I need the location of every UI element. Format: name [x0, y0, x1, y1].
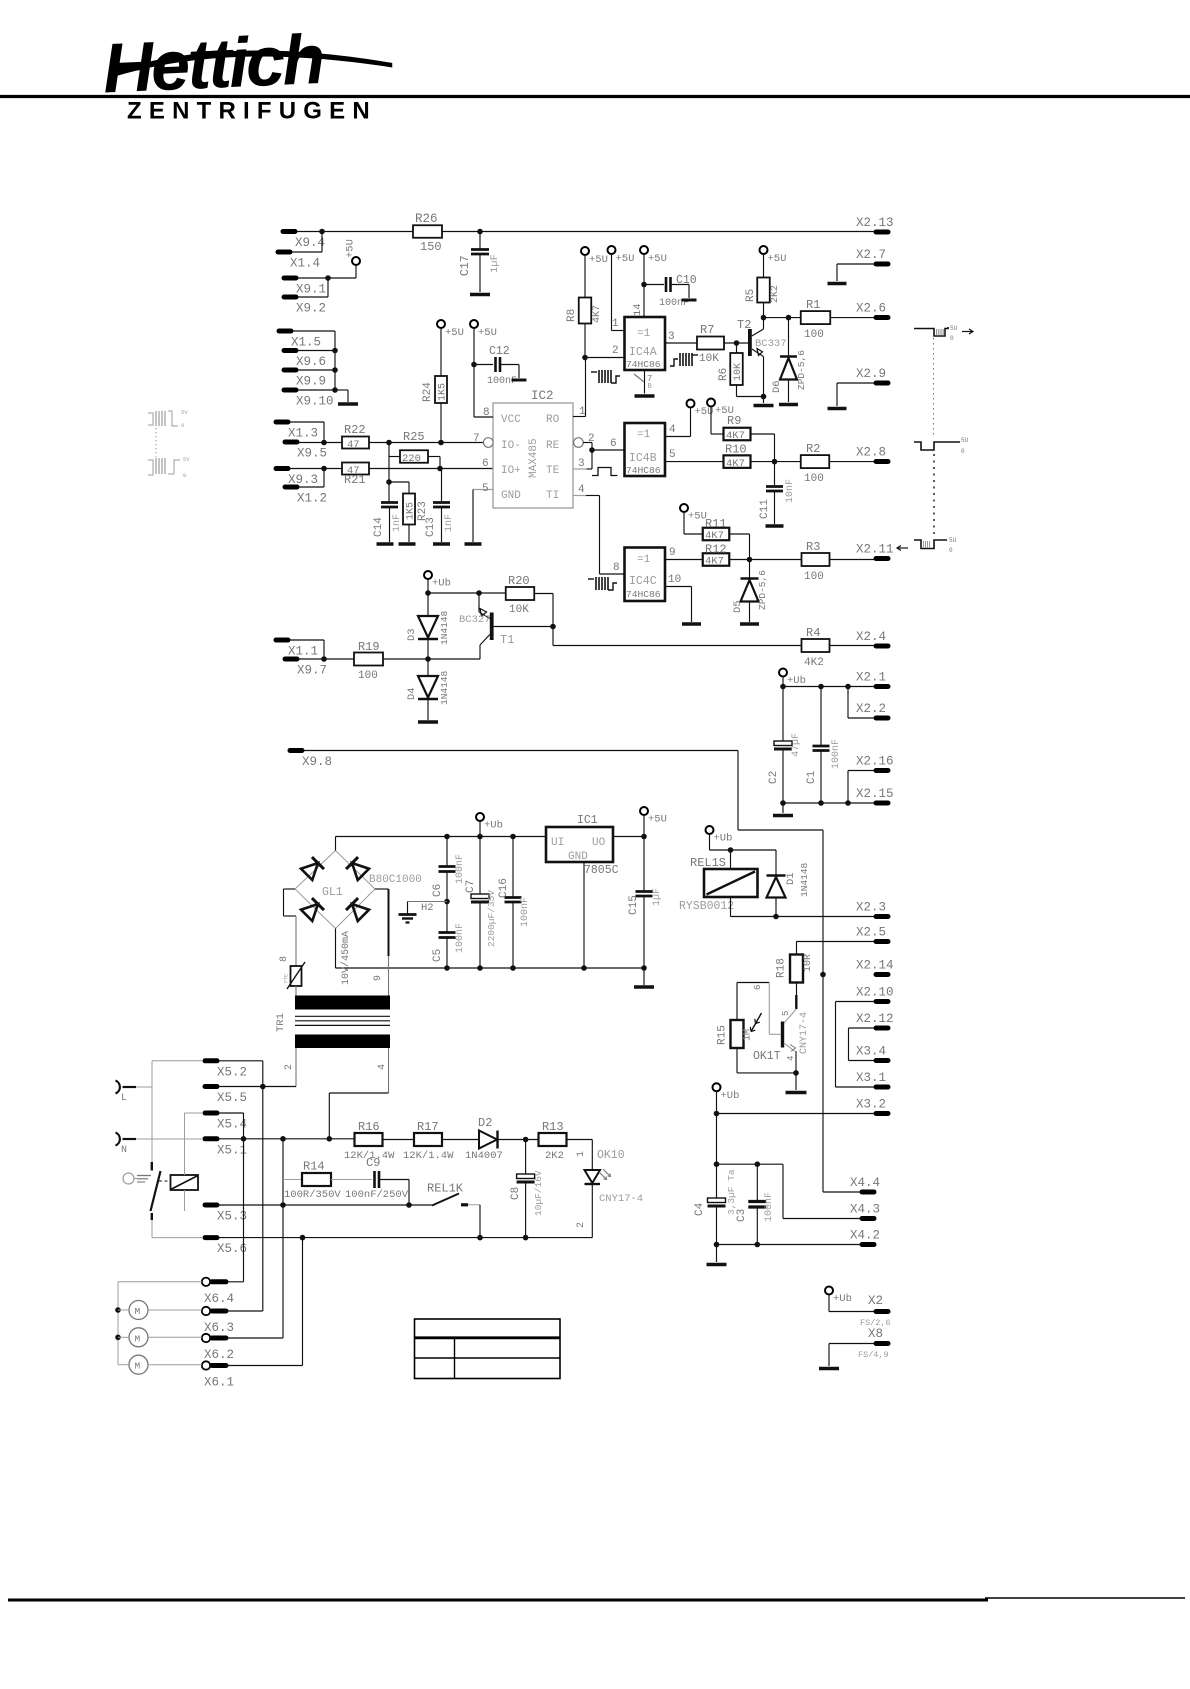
svg-text:1: 1 [576, 1151, 587, 1157]
svg-text:C16: C16 [498, 878, 510, 898]
svg-text:100nF: 100nF [764, 1192, 775, 1222]
wire to X4.3 [782, 1164, 784, 1218]
relay REL1S coil body [704, 869, 758, 897]
svg-text:T1: T1 [500, 633, 514, 647]
bus L lower [151, 1220, 153, 1238]
relay coil (door lock) [171, 1175, 199, 1190]
wire C3 row [717, 1163, 784, 1165]
door switch contact [151, 1162, 153, 1171]
svg-text:B80C1000: B80C1000 [369, 874, 422, 886]
connector pin X2.10 [876, 999, 888, 1004]
svg-text:R10: R10 [725, 443, 747, 457]
svg-text:C1: C1 [806, 770, 818, 784]
svg-text:5: 5 [669, 449, 676, 461]
svg-text:X9.7: X9.7 [297, 664, 327, 678]
capacitor C16 [512, 837, 514, 898]
diode D1 1N4148 [775, 850, 777, 875]
connector pin X9.4 [283, 229, 295, 234]
svg-text:100: 100 [804, 571, 824, 583]
node C5/C6/H2 [444, 899, 450, 905]
svg-text:1nF: 1nF [392, 514, 403, 532]
IC4B pin5 output [665, 461, 724, 463]
wire X5.5 right [219, 1086, 263, 1088]
wire R11 to node [730, 533, 750, 535]
wire R7 to T2 base [724, 342, 748, 344]
resistor R2 [801, 455, 830, 468]
connector pin X2.2 [876, 716, 888, 721]
svg-text:X9.8: X9.8 [302, 755, 332, 769]
svg-text:X5.3: X5.3 [217, 1210, 247, 1224]
svg-text:X1.4: X1.4 [290, 257, 320, 271]
svg-text:+5U: +5U [478, 327, 497, 339]
svg-text:X9.1: X9.1 [296, 283, 326, 297]
svg-text:X1.1: X1.1 [288, 645, 318, 659]
node C12 tap [471, 362, 477, 368]
node C8 tap [523, 1137, 529, 1143]
R25 left lead [389, 456, 400, 458]
node D1 bottom [773, 914, 779, 920]
svg-text:0: 0 [949, 547, 953, 554]
svg-text:N: N [121, 1145, 127, 1156]
IC2 pin 7 bubble [484, 438, 494, 448]
svg-text:10µF/16V: 10µF/16V [533, 1170, 544, 1216]
bus X6.3 drop [262, 1087, 264, 1312]
bus L upper [151, 1061, 153, 1162]
wire +5V to X9.1 node [355, 265, 357, 278]
OK1T base link [737, 982, 769, 984]
capacitor C13 [441, 469, 443, 503]
svg-text:1M: 1M [743, 1029, 754, 1041]
svg-text:4K7: 4K7 [726, 430, 745, 442]
wire down to C4 [716, 1114, 718, 1199]
connector pin X2.9 [876, 381, 888, 386]
wire X1.2 [299, 486, 324, 488]
svg-text:D5: D5 [732, 600, 744, 613]
wire +5V to IC2 pin8 [473, 328, 475, 417]
svg-text:X2.6: X2.6 [856, 302, 886, 316]
connector pin X9.3 [276, 466, 288, 471]
connector pin X8 [876, 1341, 888, 1346]
node emitter/R20 [476, 590, 482, 596]
wire N to X5.1 [136, 1138, 203, 1140]
svg-text:R18: R18 [776, 958, 788, 978]
OK1T transistor bar [781, 1022, 784, 1048]
node C10 tap [641, 282, 647, 288]
wire R19 to D3/D4 node [383, 658, 480, 660]
connector pin X2.1 [876, 684, 888, 689]
wire X9.6 [298, 350, 335, 352]
wire X9.7 [299, 658, 324, 660]
connector pin X9.1 [284, 276, 296, 281]
node IC1 out [641, 834, 647, 840]
node C3 bottom [755, 1242, 761, 1248]
svg-text:1N4148: 1N4148 [439, 610, 450, 645]
svg-text:10: 10 [668, 574, 681, 586]
node C5 rail- [444, 965, 450, 971]
TR1 pin2 lead [295, 1048, 297, 1087]
node rail +Ub/C7 [477, 834, 483, 840]
node X9.1/X9.2 [325, 275, 331, 281]
supply +5V circle (R11) [680, 504, 688, 512]
connector pin X3.4 [876, 1058, 888, 1063]
svg-text:1K5: 1K5 [438, 383, 449, 401]
svg-text:+Ub: +Ub [833, 1293, 852, 1305]
wire X9.2 [298, 296, 328, 298]
connector pin X3.1 [876, 1085, 888, 1090]
svg-text:X1.3: X1.3 [288, 427, 318, 441]
node C15 rail- [641, 965, 647, 971]
svg-text:4K2: 4K2 [804, 657, 824, 669]
svg-text:L: L [121, 1093, 127, 1104]
connector pin X5.2 [205, 1058, 217, 1063]
OK1T phototransistor collector lead [795, 995, 797, 1009]
svg-text:ZENTRIFUGEN: ZENTRIFUGEN [127, 98, 377, 125]
capacitor C4 3.3uF Ta [708, 1198, 726, 1203]
transistor T1 BC327 [478, 593, 480, 612]
resistor R22 [342, 437, 369, 449]
svg-text:10K: 10K [509, 604, 529, 616]
connector X6.3 [202, 1307, 210, 1315]
capacitor C14 [381, 501, 398, 504]
pulse glyph at IC4A pin2 [591, 371, 597, 373]
wire X3.2 [717, 1113, 875, 1115]
bridge rectifier GL1 diamond [295, 851, 375, 929]
resistor R26 [413, 225, 442, 238]
ground D4 [418, 720, 438, 724]
svg-text:RYSB0012: RYSB0012 [679, 900, 734, 913]
wire R20 to base node [535, 593, 554, 595]
connector pin X5.6 [205, 1235, 217, 1240]
supply +Ub circle (X2) [825, 1287, 833, 1295]
capacitor C5 [446, 902, 448, 933]
IC2 pin 2 bubble [574, 438, 584, 448]
svg-text:IC1: IC1 [577, 814, 598, 827]
resistor R19 [354, 653, 383, 666]
node rail C6 [444, 834, 450, 840]
svg-text:IC4A: IC4A [629, 346, 657, 359]
svg-text:9: 9 [669, 547, 676, 559]
zener diode D5 ZPD-5,6 [749, 560, 751, 579]
svg-text:100: 100 [804, 329, 824, 341]
wire C9 to X5.3 row [379, 1179, 409, 1181]
node C17 tap [477, 229, 483, 235]
svg-text:TE: TE [546, 465, 560, 477]
connector pin X2.14 [876, 972, 888, 977]
supply +5V circle (IC2 VCC) [470, 320, 478, 328]
svg-text:=1: =1 [637, 429, 651, 441]
node R25/IO+ [437, 466, 443, 472]
connector pin X2.7 [876, 262, 888, 267]
resistor R17 12K/1.4W [414, 1133, 442, 1146]
node C4 bottom [714, 1242, 720, 1248]
dotted joint [155, 428, 157, 457]
node D6 tap [786, 315, 792, 321]
wire X2.7 to ground [837, 263, 874, 265]
capacitor C12 [474, 364, 493, 366]
coil lead [730, 850, 732, 869]
svg-text:6: 6 [610, 438, 617, 450]
supply +5V circle (IC4A pin1) [608, 246, 616, 254]
motor M3 [129, 1355, 148, 1374]
wire +Ub down [716, 1091, 718, 1113]
supply +5V circle (R5) [760, 246, 768, 254]
OK1T emitter rail [737, 1072, 797, 1074]
svg-text:R12: R12 [705, 543, 727, 557]
svg-text:IO+: IO+ [501, 465, 521, 477]
IC2 pin 4 stub [573, 495, 586, 497]
waveform at X2.11 [914, 540, 947, 549]
svg-text:X5.4: X5.4 [217, 1118, 247, 1132]
svg-text:100nF: 100nF [455, 923, 466, 953]
wire node down to IC2 pin1 [585, 358, 587, 417]
wire +Ub down [782, 677, 784, 687]
wire to R19 [324, 658, 354, 660]
dotted link line upper [933, 338, 935, 438]
wire IC1 out [613, 836, 644, 838]
PE earth symbol [123, 1173, 134, 1184]
svg-text:R9: R9 [727, 414, 741, 428]
svg-text:4K7: 4K7 [705, 530, 724, 542]
svg-text:2200µF/35V: 2200µF/35V [486, 890, 497, 947]
svg-text:X2.16: X2.16 [856, 755, 894, 769]
IC4B pin4 to +5V [665, 436, 691, 438]
svg-text:D1: D1 [785, 872, 797, 885]
svg-text:X4.4: X4.4 [850, 1176, 880, 1190]
wire X5.1 to R16 [219, 1138, 355, 1140]
svg-text:X2.1: X2.1 [856, 671, 886, 685]
svg-text:GND: GND [568, 851, 588, 863]
wire X1.4 up to X9.4 [292, 251, 322, 253]
ground C10 [682, 299, 697, 302]
connector pin X2.13 [876, 230, 888, 235]
IC4A pin3 output to R7 [665, 342, 697, 344]
arrow left at X2.11 [898, 547, 908, 549]
svg-text:220: 220 [402, 453, 421, 465]
resistor R18 10R [790, 955, 803, 983]
svg-text:D4: D4 [406, 687, 418, 700]
capacitor C2 47uF [782, 687, 784, 742]
svg-text:+5U: +5U [445, 327, 464, 339]
node IC4A pin2 [582, 355, 588, 361]
IC2 pin 3 stub [573, 468, 587, 470]
ground X9.10 [338, 402, 358, 406]
resistor R3 [802, 553, 830, 566]
svg-text:R8: R8 [566, 309, 578, 322]
svg-text:3,3µF Ta: 3,3µF Ta [726, 1169, 737, 1215]
svg-text:=1: =1 [637, 328, 651, 340]
wire GL1 ac left [284, 888, 296, 890]
svg-text:IC4C: IC4C [629, 575, 657, 588]
node C3 top [755, 1161, 761, 1167]
wire to ground [335, 389, 348, 391]
svg-text:5U: 5U [949, 537, 957, 544]
terminal N [116, 1133, 120, 1146]
ground T2 emitter [763, 397, 765, 404]
svg-text:=1: =1 [637, 554, 651, 566]
wire X5.4 right [219, 1112, 244, 1114]
svg-text:+Ub: +Ub [432, 578, 451, 590]
svg-text:R4: R4 [806, 626, 820, 640]
IC2 pin 5 stub [473, 489, 493, 491]
svg-text:C2: C2 [768, 771, 780, 784]
svg-text:R3: R3 [806, 540, 820, 554]
svg-text:R16: R16 [358, 1120, 380, 1134]
wire R12 to node [730, 559, 750, 561]
svg-text:R25: R25 [403, 430, 425, 444]
wire X9.10 [298, 389, 335, 391]
svg-text:H2: H2 [421, 902, 434, 914]
resistor R11 4K7 [683, 512, 685, 534]
wire to R21 [324, 468, 342, 470]
connector pin X3.2 [876, 1111, 888, 1116]
dashed actuator link [159, 1180, 171, 1182]
svg-text:100R/350V: 100R/350V [284, 1189, 341, 1201]
svg-text:RO: RO [546, 414, 560, 426]
vertical IO- branch to C14/R23 [388, 457, 390, 503]
resistor R8 [584, 255, 586, 298]
svg-text:GND: GND [501, 490, 521, 502]
wire X1.5 bus [293, 330, 335, 332]
svg-text:X9.4: X9.4 [295, 236, 325, 250]
svg-text:4K7: 4K7 [726, 458, 745, 470]
node R25/IO- [386, 440, 392, 446]
svg-text:C5: C5 [432, 949, 444, 962]
svg-text:X3.4: X3.4 [856, 1045, 886, 1059]
svg-text:OK1T: OK1T [753, 1050, 781, 1063]
svg-text:X8: X8 [868, 1327, 883, 1341]
supply +5V circle (R24) [437, 320, 445, 328]
svg-text:2K2: 2K2 [545, 1150, 564, 1162]
connector pin X9.6 [284, 348, 296, 353]
wire R4 to X2.4 [830, 645, 875, 647]
ground X8 [819, 1367, 839, 1371]
svg-text:VCC: VCC [501, 414, 521, 426]
wire bus to X5.6 [152, 1237, 203, 1239]
resistor R16 12K/1.4W [355, 1133, 383, 1146]
svg-text:100: 100 [804, 473, 824, 485]
svg-text:1nF: 1nF [444, 514, 455, 532]
svg-text:R17: R17 [417, 1120, 439, 1134]
node X5.5/X5.2 [260, 1084, 266, 1090]
capacitor C15 [643, 837, 645, 892]
diode D3 1N4148 [427, 593, 429, 616]
svg-text:8: 8 [279, 956, 290, 962]
svg-text:5U: 5U [961, 437, 969, 444]
wire node to R3 [750, 559, 803, 561]
svg-text:+Ub: +Ub [484, 820, 503, 832]
dotted link line lower [933, 454, 935, 534]
svg-text:X2.5: X2.5 [856, 926, 886, 940]
IC2 pin5 ground [472, 490, 474, 543]
connector pin X4.2 [862, 1242, 874, 1247]
ground X4.2 rail [716, 1245, 718, 1263]
svg-text:X2.10: X2.10 [856, 986, 894, 1000]
node T2 emitter [761, 394, 767, 400]
node X1.3/X9.5 [321, 440, 327, 446]
header rule [0, 95, 1190, 98]
wire R10 to R2 [750, 461, 801, 463]
svg-text:3: 3 [578, 458, 585, 470]
bottom rail to X2.15 [783, 802, 874, 804]
ground C15 [634, 985, 654, 989]
node +Ub rail T1 [425, 590, 431, 596]
wire X1.1 [290, 639, 324, 641]
svg-text:0: 0 [950, 335, 954, 342]
svg-text:1: 1 [612, 318, 619, 330]
svg-text:X9.6: X9.6 [296, 355, 326, 369]
R18 bottom lead [796, 983, 798, 996]
svg-text:4: 4 [669, 424, 676, 436]
svg-text:+5U: +5U [589, 254, 608, 266]
IC4A pin7 ground [644, 370, 646, 394]
capacitor C9 100nF/250V [373, 1171, 376, 1188]
ground D6 [779, 403, 798, 407]
svg-text:R24: R24 [422, 382, 434, 402]
motor M1 [129, 1301, 148, 1320]
svg-text:10R: 10R [803, 954, 814, 972]
vertical bus to X4.4 [822, 830, 824, 1192]
diode D2 1N4007 [479, 1131, 497, 1149]
supply +5V circle (IC4B pin4) [687, 400, 695, 408]
capacitor C6 [446, 837, 448, 867]
node IC1 gnd rail [581, 965, 587, 971]
svg-text:X9.2: X9.2 [296, 302, 326, 316]
GL1 diode bottom-left [301, 898, 324, 921]
wire +5V to IC4A pin14 VCC [643, 254, 645, 317]
svg-text:IC2: IC2 [531, 389, 554, 403]
svg-text:RE: RE [546, 440, 560, 452]
supply +Ub circle (T1) [424, 571, 432, 579]
resistor R1 [801, 311, 831, 324]
svg-text:X2.9: X2.9 [856, 367, 886, 381]
wire GL1 minus to rail [335, 929, 337, 969]
supply +5V circle (IC1 out) [640, 807, 648, 815]
chassis ground H2 [408, 901, 448, 903]
svg-text:+Ub: +Ub [787, 675, 806, 687]
bus X6.4 drop [243, 1139, 245, 1282]
wire IC2 pin2 bubble to node [583, 442, 592, 444]
IC4C pin10 ground [665, 586, 692, 588]
node R24/IO- [438, 440, 444, 446]
svg-text:4: 4 [786, 1056, 796, 1061]
optocoupler OK10 LED [585, 1170, 601, 1183]
NTC thermistor pin8 [291, 966, 302, 986]
svg-text:C4: C4 [694, 1202, 706, 1216]
rail to T1 emitter [428, 592, 479, 594]
connector pin X2.5 [876, 939, 888, 944]
svg-text:C15: C15 [628, 895, 640, 915]
svg-text:6: 6 [753, 985, 763, 990]
wire GL1 ac right [375, 888, 389, 890]
svg-text:R26: R26 [415, 212, 438, 226]
svg-text:C6: C6 [432, 884, 444, 897]
wire R9 to node [750, 433, 775, 435]
node rail C16 [510, 834, 516, 840]
svg-text:+5U: +5U [616, 253, 635, 265]
svg-text:ZPD-5,6: ZPD-5,6 [757, 570, 768, 610]
svg-text:R14: R14 [303, 1160, 325, 1174]
supply +Ub circle (rail) [476, 813, 484, 821]
footer rule [8, 1599, 988, 1602]
node C7 rail- [477, 965, 483, 971]
svg-text:12K/1.4W: 12K/1.4W [403, 1150, 454, 1162]
svg-text:X6.3: X6.3 [204, 1321, 234, 1335]
svg-text:R5: R5 [745, 289, 757, 302]
svg-text:+5U: +5U [345, 239, 357, 258]
ground C11 [766, 524, 784, 528]
IC U IC4C 74HC86 body [625, 548, 666, 602]
svg-text:X1.5: X1.5 [291, 336, 321, 350]
